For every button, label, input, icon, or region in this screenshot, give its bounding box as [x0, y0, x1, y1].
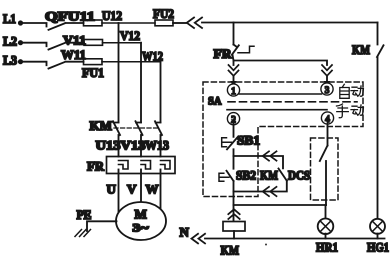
wire W12 drop [160, 62, 162, 123]
svg-text:KM: KM [90, 118, 113, 133]
svg-text:3: 3 [325, 85, 330, 95]
lamp HR1 [316, 205, 338, 255]
svg-text:3~: 3~ [133, 221, 150, 235]
node L3 [3, 53, 23, 68]
SA contact bar auto [239, 93, 321, 95]
DCS dashed box [311, 138, 339, 200]
connector chevrons on N line [192, 234, 206, 244]
contactor KM aux contact [260, 168, 287, 183]
contactor KM main contact 2 [136, 121, 143, 135]
wire terminal 2 to SB1 [233, 124, 235, 137]
breaker QF pole 2 [49, 43, 85, 50]
fuse FU2 [153, 6, 174, 26]
svg-text:1: 1 [231, 86, 236, 96]
pushbutton SB1 (NC stop) [222, 133, 260, 150]
wire terminal 4 down [327, 124, 329, 146]
FR heater element 2 [141, 161, 151, 170]
wire SB column to coil [233, 197, 235, 222]
svg-text:HR1: HR1 [316, 240, 338, 255]
fuse FU1 pole 3 [84, 59, 161, 65]
wire V13 [140, 135, 142, 157]
svg-text:W13: W13 [145, 139, 169, 153]
FR heater element 1 [119, 161, 129, 170]
wire FR branch drop [233, 23, 235, 45]
connector chevrons into SA 1 [229, 65, 239, 76]
label manual (shou dong) [337, 104, 364, 118]
breaker QF pole 3 [49, 62, 84, 69]
contact DCS auto (NO) [320, 146, 328, 162]
wire with arrow into terminal 1 [230, 76, 236, 87]
svg-text:V12: V12 [120, 28, 140, 43]
svg-text:V: V [127, 182, 137, 197]
svg-text:HG1: HG1 [367, 240, 389, 255]
FR heater element 3 [161, 161, 171, 170]
connector chevrons branch top [263, 151, 277, 160]
svg-text:QFU11: QFU11 [45, 9, 95, 24]
SA contact bar manual [227, 109, 327, 111]
svg-text:SA: SA [208, 94, 222, 108]
wire V12 drop [140, 43, 142, 123]
svg-text:L2: L2 [3, 34, 17, 49]
svg-text:W: W [146, 182, 159, 197]
wire N line [265, 244, 267, 246]
svg-text:KM: KM [352, 42, 370, 57]
svg-text:KM: KM [260, 168, 278, 183]
svg-text:U: U [107, 182, 117, 197]
lamp HG1 [367, 219, 389, 255]
linkage dashed KM contacts [114, 127, 160, 129]
wire SB2 down [233, 181, 235, 197]
wire with arrow into terminal 3 [324, 76, 330, 87]
motor M 3~ [116, 202, 166, 240]
wire FU2 to connector [173, 22, 186, 24]
wire L1 to QF [21, 23, 47, 27]
wire V to motor [140, 170, 142, 204]
svg-text:FR: FR [214, 46, 233, 61]
terminal 2 [227, 113, 239, 125]
label auto (zi dong) [340, 84, 364, 98]
wire SB1 to junction [233, 149, 235, 156]
svg-text:U12: U12 [102, 8, 122, 23]
connector chevrons branch bottom [263, 187, 277, 196]
wire left branch to SA [233, 61, 235, 66]
wire contact to junction [325, 161, 327, 205]
connector chevrons on L1 control line [187, 18, 202, 29]
svg-text:M: M [135, 207, 147, 222]
svg-text:FR: FR [87, 159, 105, 174]
svg-text:V11: V11 [63, 33, 86, 48]
fuse FU1 pole 1 [84, 20, 156, 26]
svg-text:W11: W11 [61, 47, 86, 62]
terminal 1 [227, 84, 239, 96]
connector chevrons above coil [228, 209, 239, 219]
SA linkage dashed [228, 101, 357, 103]
contactor KM main contact 3 [155, 121, 162, 135]
wire right branch [377, 57, 379, 219]
svg-text:FU2: FU2 [153, 6, 174, 21]
wire KM aux branch top [234, 156, 284, 168]
coil KM [221, 222, 246, 258]
wire W13 [160, 135, 162, 157]
thermal relay FR box [87, 157, 175, 174]
svg-text:DCS: DCS [288, 168, 310, 183]
node L1 [3, 11, 23, 26]
wire coil to N [233, 231, 235, 239]
svg-text:L1: L1 [3, 11, 16, 26]
connector chevrons into SA 3 [322, 65, 332, 76]
wire U to motor [118, 170, 120, 213]
wire U12 drop [118, 23, 120, 122]
fuse FU1 pole 2 [84, 40, 141, 46]
node L2 [3, 34, 23, 49]
control box dashed enclosure [203, 82, 363, 197]
svg-text:L3: L3 [3, 53, 17, 68]
wire junction row [234, 204, 327, 206]
wire FR to split [233, 55, 328, 65]
svg-text:PE: PE [77, 207, 92, 222]
wire KM aux branch bottom [234, 181, 287, 192]
breaker QF pole 1 [49, 23, 84, 30]
svg-text:SB1: SB1 [237, 133, 260, 148]
pushbutton SB2 (NO start) [219, 156, 256, 183]
wire L2 to QF [21, 43, 47, 47]
contactor KM main contact 1 [113, 121, 120, 135]
svg-text:SB2: SB2 [236, 168, 256, 183]
wire U13 [118, 135, 120, 157]
terminal 4 [321, 112, 333, 124]
thermal contact FR (NC) [214, 45, 255, 62]
terminal 3 [321, 83, 333, 95]
svg-text:KM: KM [221, 243, 240, 258]
contactor KM lamp contact top right [352, 23, 384, 58]
svg-text:V13: V13 [121, 139, 146, 153]
wire W to motor [160, 170, 162, 210]
PE ground [75, 207, 117, 237]
wire top control line [202, 22, 378, 24]
wire L3 to QF [21, 62, 47, 65]
svg-text:U13: U13 [96, 139, 121, 153]
svg-text:N: N [180, 225, 190, 240]
svg-text:FU1: FU1 [82, 65, 104, 80]
